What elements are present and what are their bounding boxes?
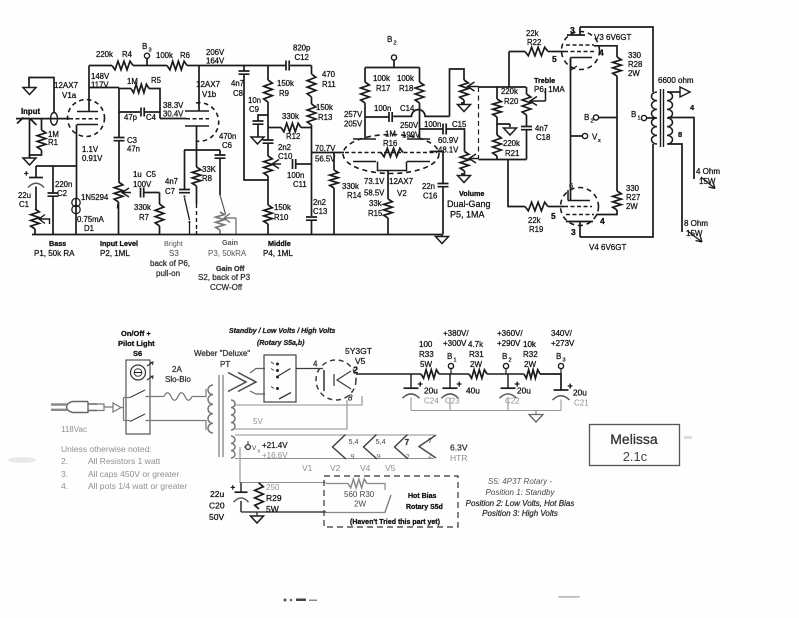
svg-text:R7: R7 — [139, 213, 149, 222]
label R1 1M — [48, 130, 59, 147]
label C14 100n — [374, 104, 415, 113]
svg-text:Volume: Volume — [459, 189, 484, 198]
tube V4 plate — [566, 221, 593, 223]
tube V2 envelope — [343, 135, 439, 174]
svg-text:R21: R21 — [505, 149, 519, 158]
wire rail R6 to V1b — [187, 65, 199, 67]
label heater tubes — [302, 463, 396, 473]
svg-text:C22: C22 — [505, 397, 520, 406]
wire R13 down — [311, 125, 313, 216]
label rotary — [257, 340, 305, 347]
svg-text:R14: R14 — [347, 191, 362, 200]
label 60.9V 48.1V — [438, 136, 459, 155]
label fuse — [165, 365, 191, 384]
svg-text:R11: R11 — [322, 80, 336, 89]
transformer PT HV chevrons — [228, 373, 256, 392]
svg-text:Gain: Gain — [222, 238, 238, 247]
label +16.6V — [262, 451, 288, 460]
svg-text:R6: R6 — [180, 51, 190, 60]
label V1a 12AX7 — [54, 81, 79, 100]
svg-text:73.1V: 73.1V — [364, 177, 385, 186]
label D1 value — [77, 215, 105, 233]
svg-text:Unless otherwise noted:: Unless otherwise noted: — [61, 444, 152, 454]
svg-text:R27: R27 — [626, 193, 640, 202]
label R22 22k — [526, 29, 541, 47]
label 5Y3GT V5 — [345, 346, 372, 375]
wire rail to C8 — [243, 66, 245, 71]
svg-text:9: 9 — [377, 452, 381, 461]
terminal B3 ps — [558, 363, 563, 374]
svg-text:R32: R32 — [523, 350, 538, 359]
svg-text:P6, 1MA: P6, 1MA — [534, 85, 565, 94]
svg-text:B: B — [387, 35, 392, 44]
transformer OT primary — [652, 92, 658, 144]
svg-text:2W: 2W — [354, 500, 366, 509]
svg-text:V2: V2 — [330, 463, 341, 473]
wire R5 right — [149, 89, 160, 119]
label C18 4n7 — [535, 124, 550, 142]
label pin5 V4 — [551, 211, 556, 221]
switch S5a contacts — [271, 362, 291, 399]
wire C1 to P1 — [35, 187, 37, 210]
svg-text:x: x — [598, 138, 601, 144]
resistor R9 — [264, 80, 273, 102]
transformer OT core — [661, 89, 664, 147]
label hot bias — [406, 493, 443, 511]
svg-text:B: B — [584, 113, 589, 122]
svg-text:All pots 1/4 watt or greater: All pots 1/4 watt or greater — [88, 481, 187, 491]
wire P1 bottom — [34, 229, 36, 235]
svg-text:220k: 220k — [501, 87, 518, 96]
svg-text:R1: R1 — [48, 138, 58, 147]
svg-text:B: B — [447, 352, 452, 361]
svg-text:2: 2 — [394, 41, 397, 47]
svg-text:220n: 220n — [55, 180, 72, 189]
wire C1 stem — [35, 166, 37, 177]
heater chevron4 — [419, 435, 436, 460]
wire R14 bottom — [333, 188, 335, 235]
transformer PT core — [219, 375, 223, 457]
svg-text:+: + — [418, 379, 423, 389]
svg-text:Standby / Low Volts / High Vol: Standby / Low Volts / High Volts — [229, 328, 336, 335]
wiper P4 — [272, 160, 281, 169]
resistor R22 — [525, 47, 548, 56]
label notes — [61, 444, 187, 491]
svg-text:Position 1: Standby: Position 1: Standby — [486, 488, 556, 497]
svg-text:P5, 1MA: P5, 1MA — [450, 210, 485, 220]
transformer PT primary — [208, 385, 213, 433]
label C7 4n7 — [165, 177, 178, 196]
label 8 Ohm — [684, 219, 708, 228]
wire heater top — [235, 434, 434, 436]
heater chevron3 — [395, 435, 410, 462]
svg-text:22u: 22u — [210, 489, 224, 499]
svg-text:C20: C20 — [209, 501, 225, 511]
wire C2 stem — [52, 166, 54, 193]
wire rail R4-R6 — [133, 65, 167, 67]
smudge right margin — [684, 436, 692, 439]
tube V5 envelope — [316, 360, 356, 400]
svg-text:C10: C10 — [278, 152, 293, 161]
label pin6 V4 — [569, 181, 573, 190]
svg-text:220k: 220k — [503, 139, 520, 148]
svg-text:V: V — [252, 445, 257, 452]
terminal Vx — [582, 133, 587, 138]
wire AC neutral — [146, 421, 207, 431]
svg-text:C2: C2 — [57, 189, 67, 198]
svg-text:V5: V5 — [385, 463, 396, 473]
label C3 47n — [127, 136, 140, 154]
label V4 6V6GT — [589, 243, 626, 252]
svg-text:22n: 22n — [422, 182, 435, 191]
AC plug — [51, 402, 97, 413]
label Gain P3 — [198, 238, 251, 292]
svg-text:R28: R28 — [628, 60, 642, 69]
capacitor C2 — [48, 193, 59, 196]
svg-text:pull-on: pull-on — [156, 269, 180, 278]
terminal B2 ps — [503, 363, 508, 374]
wire C5 to R7 — [144, 192, 160, 194]
capacitor C6 — [215, 155, 226, 158]
resistor R15 — [384, 199, 393, 218]
label pin4 V3 — [599, 48, 604, 58]
resistor R7 — [155, 204, 164, 226]
potentiometer P4 — [264, 156, 273, 176]
resistor R13 — [307, 104, 316, 125]
svg-text:2W: 2W — [524, 360, 536, 369]
svg-text:B: B — [631, 110, 636, 119]
svg-text:6.3V: 6.3V — [450, 443, 468, 453]
tube V1b plate — [185, 110, 209, 112]
svg-text:Hot Bias: Hot Bias — [408, 493, 437, 500]
svg-text:60.9V: 60.9V — [438, 136, 459, 145]
svg-text:B: B — [502, 352, 507, 361]
resistor R32 — [524, 370, 540, 379]
wire R12 left — [268, 127, 281, 129]
label R31 — [468, 340, 484, 369]
wire R7 bottom — [159, 226, 161, 235]
svg-text:P2, 1ML: P2, 1ML — [100, 249, 130, 258]
label On/Off Pilot — [118, 329, 155, 358]
svg-text:C23: C23 — [445, 397, 460, 406]
tube V1b envelope — [196, 103, 219, 142]
svg-text:V4: V4 — [360, 463, 371, 473]
wire C13 bottom — [311, 220, 313, 234]
wire bias drop — [240, 447, 326, 483]
wire P3 bottom — [219, 230, 221, 235]
wire C15 right — [446, 129, 464, 152]
svg-text:4: 4 — [313, 360, 318, 369]
svg-text:1u: 1u — [133, 170, 142, 179]
resistor R14 — [330, 170, 339, 188]
svg-text:1M: 1M — [385, 130, 396, 139]
arrow AC — [113, 403, 121, 412]
wire R8 top — [196, 150, 198, 167]
tube V2 plate left — [353, 138, 376, 140]
svg-text:22k: 22k — [526, 29, 539, 38]
label C15 100n — [424, 120, 467, 129]
smudge bottom dots — [284, 599, 318, 602]
label R33 — [419, 340, 434, 369]
svg-text:3: 3 — [149, 48, 152, 54]
svg-text:30.4V: 30.4V — [163, 110, 184, 119]
wire Vx — [571, 135, 583, 137]
label C1 22u — [18, 191, 31, 209]
label R28 330 — [628, 51, 642, 78]
svg-text:3.: 3. — [61, 469, 68, 479]
label R7 330k — [134, 203, 151, 222]
svg-text:150k: 150k — [277, 79, 294, 88]
capacitor C22 — [500, 379, 520, 398]
wire C6 stem — [219, 150, 221, 155]
svg-text:V1a: V1a — [62, 91, 77, 100]
svg-text:+: + — [457, 379, 462, 389]
wire R10 bottom — [267, 224, 269, 235]
wire rail1 — [439, 373, 469, 375]
svg-text:2W: 2W — [626, 202, 638, 211]
wire C18 bottom — [526, 130, 528, 160]
wire R1 stub — [41, 119, 43, 130]
svg-text:C18: C18 — [536, 133, 550, 142]
wire C15 left — [420, 128, 443, 130]
wire rail2 — [487, 373, 524, 375]
wire C20 stem — [240, 483, 242, 493]
label B1 ps — [447, 352, 457, 364]
label Melissa — [610, 431, 658, 447]
svg-text:R5: R5 — [151, 76, 162, 85]
wire R22 drop — [508, 52, 510, 88]
wire rail C8-R9 — [199, 65, 286, 67]
svg-text:100: 100 — [419, 340, 433, 349]
label Treble P6 — [534, 76, 565, 94]
svg-text:199V: 199V — [402, 131, 421, 140]
label R4 220k — [96, 50, 133, 59]
node jack tip loop — [51, 113, 58, 126]
svg-text:20u: 20u — [573, 388, 587, 398]
wire R19 to V4 — [548, 206, 564, 208]
smudge left margin — [8, 457, 36, 463]
svg-text:R13: R13 — [318, 113, 332, 122]
svg-text:Input Level: Input Level — [100, 239, 138, 248]
svg-text:1M: 1M — [127, 77, 138, 86]
potentiometer P6 — [522, 87, 545, 115]
wire V5 output — [356, 373, 421, 375]
svg-text:47n: 47n — [127, 145, 140, 154]
label pin4 V4 — [600, 216, 605, 226]
wire R18 plate — [419, 103, 421, 139]
wire input to V1a grid — [23, 118, 70, 120]
svg-text:(Haven't Tried this part yet): (Haven't Tried this part yet) — [350, 519, 440, 526]
label C22 20u — [505, 386, 531, 406]
svg-text:S3: S3 — [169, 249, 179, 258]
label R21 220k — [503, 139, 520, 158]
label R32 — [523, 340, 538, 369]
svg-text:12AX7: 12AX7 — [54, 81, 79, 90]
svg-text:2.1c: 2.1c — [623, 449, 648, 464]
pilot lamp — [131, 365, 146, 380]
svg-text:1: 1 — [638, 116, 641, 122]
label Vx — [592, 133, 601, 145]
svg-text:8 Ohm: 8 Ohm — [684, 219, 708, 228]
svg-text:+: + — [568, 381, 573, 391]
tube V2 plate right — [407, 138, 430, 140]
svg-text:Middle: Middle — [268, 239, 291, 248]
label C21 20u — [573, 388, 589, 408]
svg-text:+273V: +273V — [551, 339, 575, 348]
svg-text:Rotary S5d: Rotary S5d — [406, 504, 443, 511]
wire R14 stub — [333, 153, 335, 171]
tube V1a grid — [69, 118, 98, 120]
wire OT sec top arrow — [668, 87, 690, 97]
svg-text:back of P6,: back of P6, — [150, 259, 190, 268]
svg-text:C6: C6 — [222, 141, 232, 150]
arrow 8ohm — [687, 231, 702, 243]
resistor R20 — [493, 99, 502, 117]
svg-text:4n7: 4n7 — [165, 177, 178, 186]
wire C23 stem — [449, 374, 451, 388]
wire C3 to P2 — [118, 141, 120, 182]
tube V3 grid — [564, 51, 594, 53]
label 4 Ohm — [696, 167, 720, 176]
ground C9 — [251, 137, 264, 144]
terminal Vx heater — [244, 441, 250, 449]
svg-text:257V: 257V — [344, 110, 363, 119]
svg-text:+: + — [231, 483, 236, 492]
wire B1 to CT — [647, 117, 656, 119]
resistor R8 — [192, 167, 201, 186]
svg-text:Gain Off: Gain Off — [216, 264, 245, 273]
wire R22 left — [509, 51, 525, 53]
wire C23 bottom — [449, 398, 451, 411]
svg-text:7: 7 — [405, 438, 409, 447]
switch S2 — [220, 195, 226, 214]
capacitor C14 — [389, 112, 392, 122]
label Vx heater — [252, 445, 261, 455]
svg-text:R20: R20 — [504, 97, 519, 106]
label C2 220n — [55, 180, 72, 198]
label C13 2n2 — [313, 198, 327, 216]
svg-text:1: 1 — [454, 358, 457, 364]
label Input Level P2 — [100, 239, 138, 258]
potentiometer P2 — [114, 182, 123, 202]
label +360V — [497, 329, 523, 348]
svg-text:12AX7: 12AX7 — [389, 177, 414, 186]
capacitor C21 — [553, 381, 573, 400]
svg-text:R31: R31 — [469, 350, 484, 359]
wire C9 tap — [258, 115, 268, 121]
svg-text:164V: 164V — [206, 57, 225, 66]
wire V1b cathode down — [196, 126, 198, 150]
tube V1a plate — [77, 111, 98, 113]
svg-text:R17: R17 — [376, 84, 390, 93]
label Middle P4 — [263, 239, 293, 258]
heater chevron2 — [364, 435, 386, 462]
svg-text:C9: C9 — [249, 105, 259, 114]
label C24 20u — [424, 386, 439, 406]
svg-text:C13: C13 — [313, 207, 327, 216]
wire R30 left — [326, 483, 348, 485]
svg-text:5W: 5W — [420, 360, 432, 369]
label 118Vac — [61, 425, 87, 434]
svg-text:118Vac: 118Vac — [61, 425, 87, 434]
svg-text:1N5294: 1N5294 — [81, 193, 109, 202]
label tap 4 — [690, 103, 695, 112]
svg-text:3: 3 — [570, 25, 575, 35]
label standby — [229, 328, 336, 335]
capacitor C9 — [253, 121, 264, 124]
wire screen bus — [616, 76, 618, 191]
label R19 22k — [528, 216, 543, 234]
svg-text:47p: 47p — [124, 113, 138, 122]
svg-text:R19: R19 — [529, 225, 543, 234]
node B3 stem — [146, 59, 148, 66]
svg-text:B: B — [142, 42, 147, 51]
diode D1 — [72, 198, 80, 214]
svg-text:3: 3 — [571, 227, 576, 237]
wire B2 stem — [393, 60, 395, 68]
svg-text:S5: 4P3T Rotary -: S5: 4P3T Rotary - — [488, 477, 552, 486]
wire cathode bus V3V4 — [570, 58, 572, 201]
wire ground rail — [32, 234, 442, 236]
tube V3 beam tick — [571, 66, 577, 70]
label C23 40u — [445, 386, 480, 406]
label 38.3V 30.4V — [163, 101, 184, 119]
svg-text:S6: S6 — [133, 349, 142, 358]
switch S6 blade2 — [130, 414, 145, 422]
potentiometer P5a — [460, 80, 469, 100]
svg-text:5,4: 5,4 — [349, 437, 359, 446]
label 70.7V 56.5V — [315, 144, 336, 164]
wiper P3 — [224, 214, 236, 235]
svg-text:+300V: +300V — [443, 339, 467, 348]
label R18 100k — [397, 74, 414, 93]
label R13 150k — [316, 103, 333, 122]
label 5V — [253, 417, 263, 426]
svg-text:Bass: Bass — [49, 239, 66, 248]
label 1.1V 0.91V — [82, 145, 103, 163]
tube V3 cathode — [571, 58, 593, 71]
label B2 mid — [584, 113, 594, 125]
switch box S5a — [264, 355, 296, 402]
svg-text:2W: 2W — [628, 69, 640, 78]
wire C2 bottom — [52, 196, 54, 234]
wire C14 left — [365, 116, 389, 118]
tube V4 cathode — [568, 190, 590, 201]
wire R15 bottom — [387, 218, 389, 235]
svg-text:C7: C7 — [165, 187, 175, 196]
label S5 note — [466, 477, 575, 518]
label pin8 V5 — [348, 394, 353, 403]
wire R12 right — [301, 127, 312, 129]
svg-text:V1b: V1b — [202, 90, 217, 99]
capacitor C10 — [263, 140, 274, 143]
wire C22 stem — [507, 374, 509, 388]
wire C4 left — [119, 88, 140, 113]
wire R21 top — [496, 124, 498, 135]
title box — [590, 425, 680, 466]
svg-text:On/Off +: On/Off + — [121, 329, 151, 338]
svg-text:S2, back of P3: S2, back of P3 — [198, 273, 251, 282]
label R5 1M — [127, 76, 162, 86]
label D1 1N5294 — [81, 193, 109, 202]
wire V3 plate up — [579, 27, 581, 35]
wire R8 bottom — [196, 186, 198, 235]
svg-text:48.1V: 48.1V — [438, 146, 459, 155]
svg-text:P4, 1ML: P4, 1ML — [263, 249, 293, 258]
svg-text:V4 6V6GT: V4 6V6GT — [589, 243, 626, 252]
resistor R11 — [307, 74, 316, 97]
svg-text:V2: V2 — [397, 189, 407, 198]
